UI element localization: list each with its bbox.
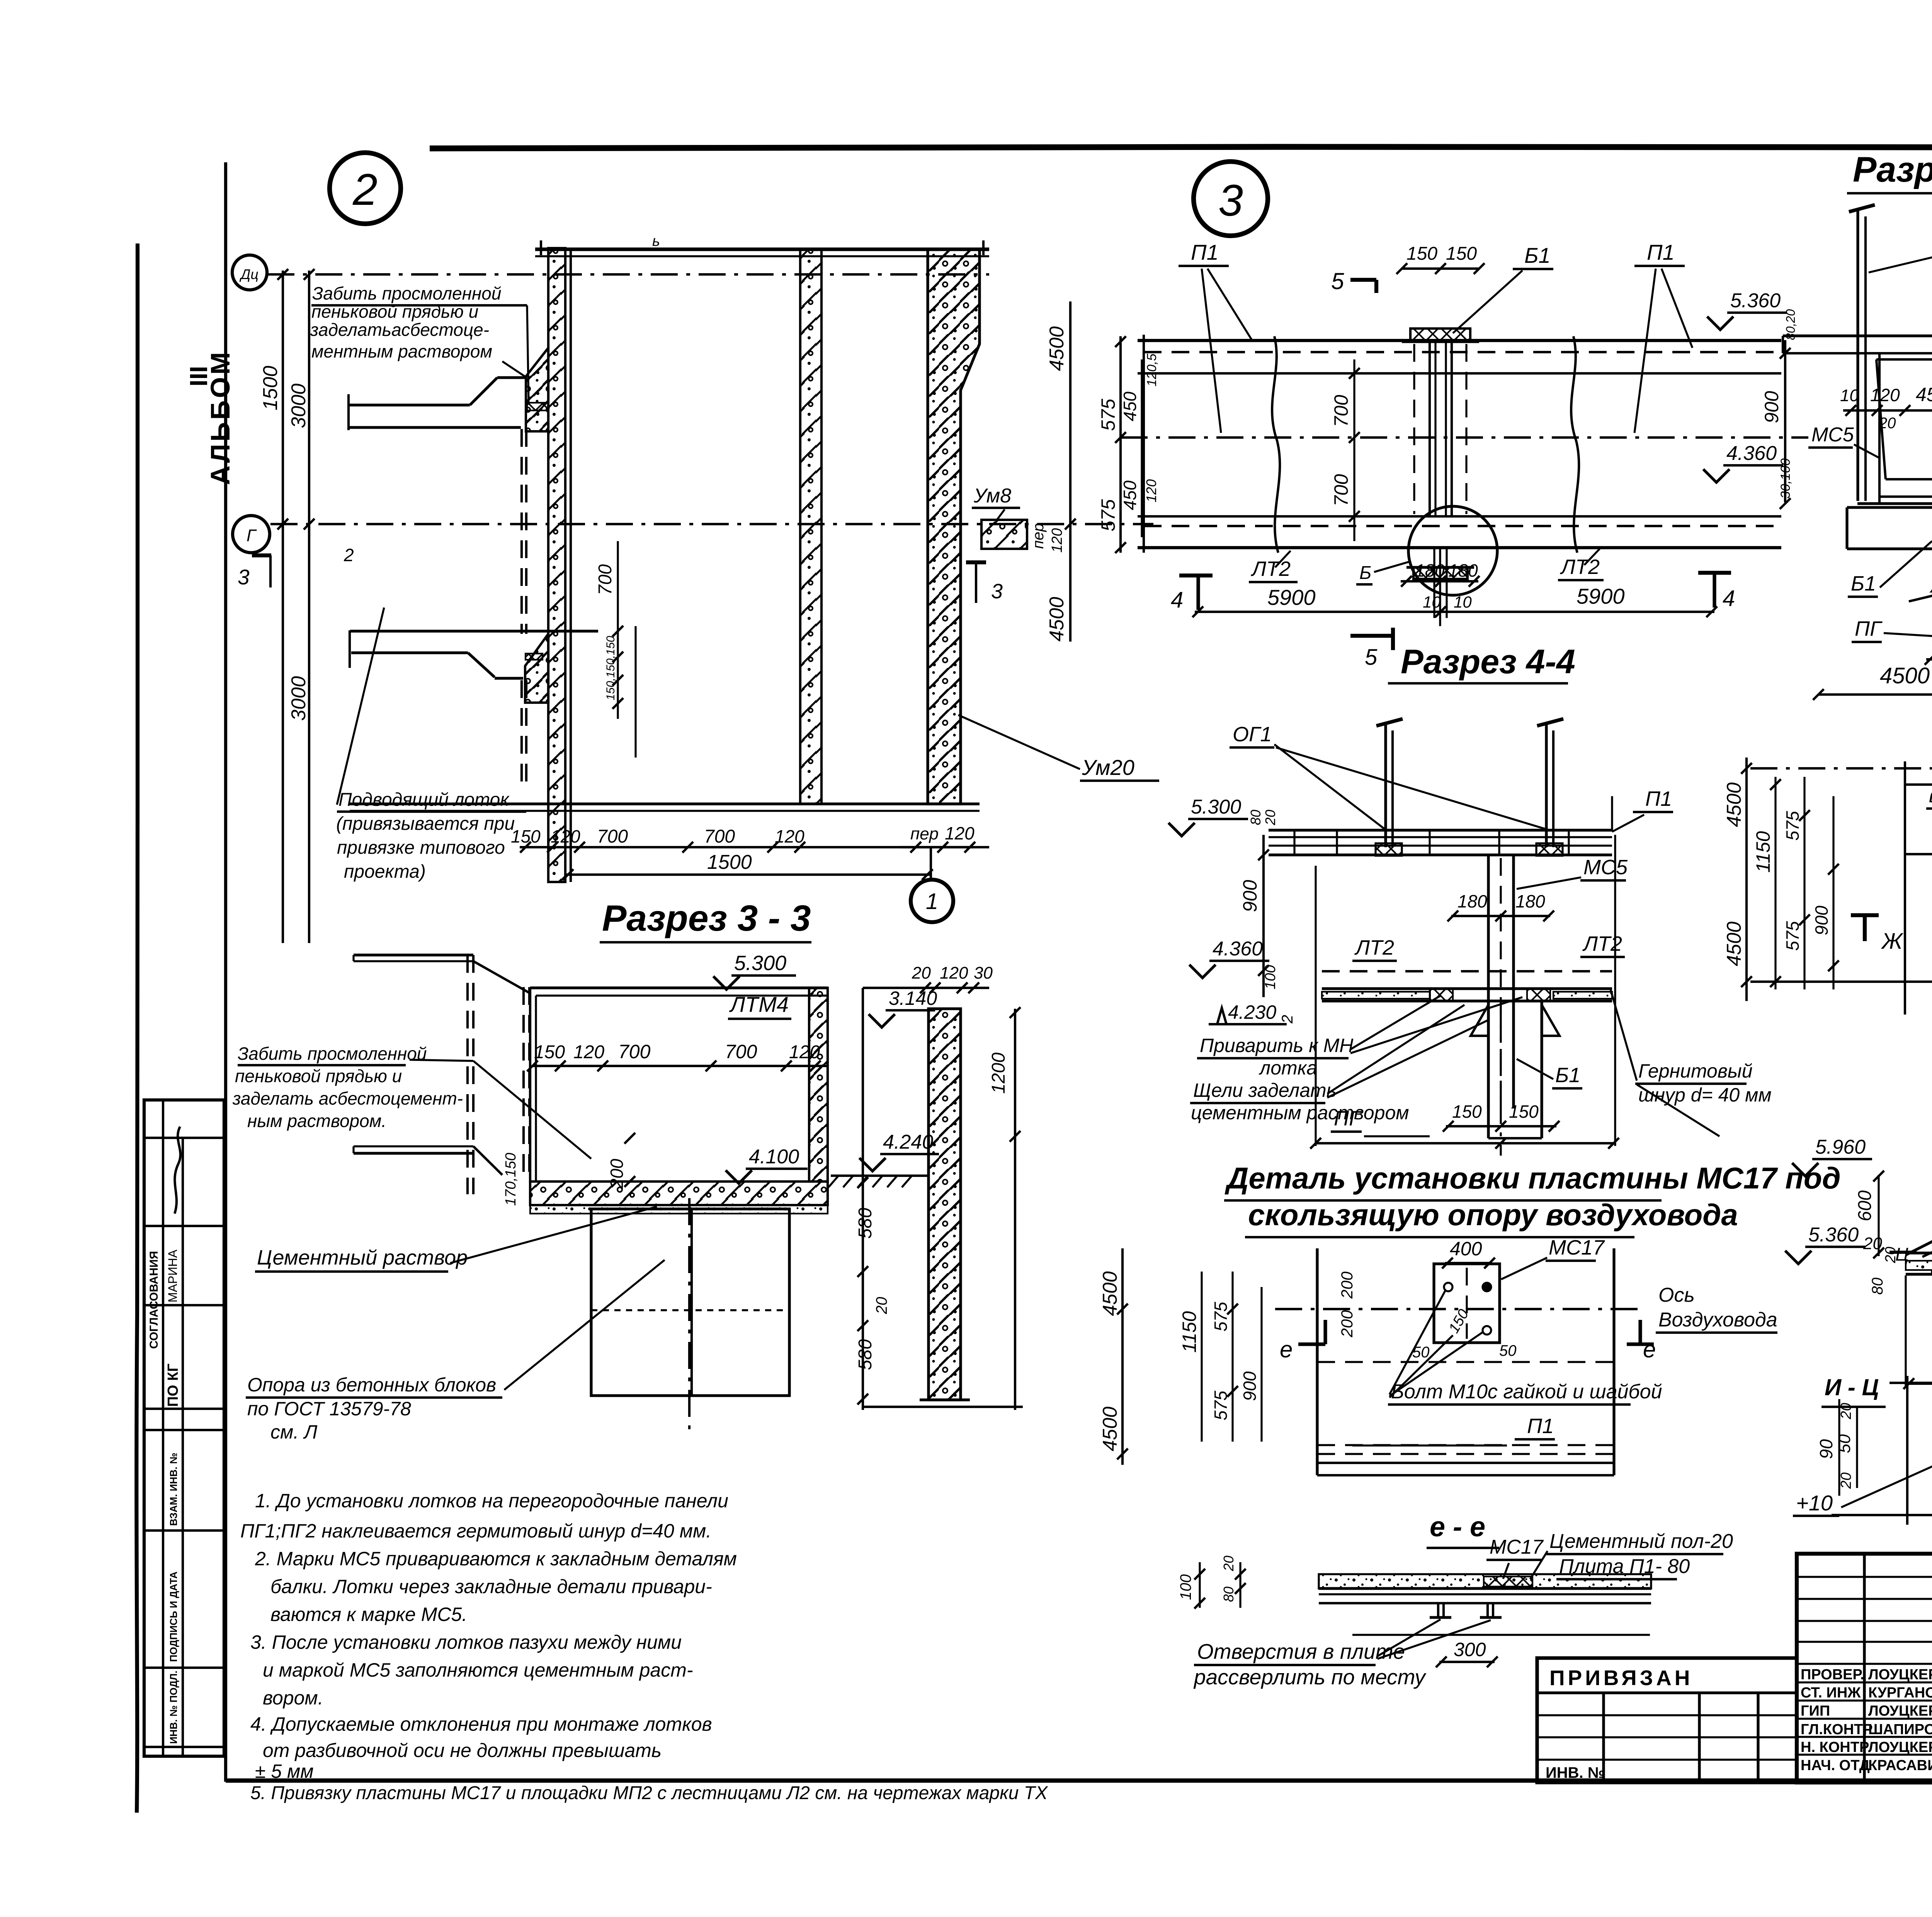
svg-text:4.240: 4.240 [883, 1131, 933, 1153]
leaders shcheli [1327, 1005, 1464, 1094]
svg-text:вором.: вором. [263, 1687, 323, 1709]
titleblock outer [1797, 1554, 1932, 1783]
wall panel 3 hatched thick [928, 249, 980, 804]
svg-text:ПГ: ПГ [1855, 617, 1883, 640]
svg-text:580: 580 [855, 1208, 876, 1239]
post left 5-5 [1856, 209, 1859, 501]
svg-text:3: 3 [991, 580, 1003, 603]
svg-text:20: 20 [873, 1297, 890, 1315]
svg-text:Б1: Б1 [1524, 243, 1551, 267]
svg-text:ВЗАМ. ИНВ. №: ВЗАМ. ИНВ. № [168, 1453, 179, 1526]
svg-text:3. После установки лотков пазу: 3. После установки лотков пазухи между н… [250, 1631, 682, 1653]
svg-text:1500: 1500 [707, 851, 752, 873]
svg-text:Б1: Б1 [1555, 1064, 1580, 1087]
svg-text:700: 700 [1330, 474, 1352, 506]
svg-text:Подводящий лоток: Подводящий лоток [338, 790, 510, 810]
svg-text:Разрез 3 - 3: Разрез 3 - 3 [602, 898, 811, 939]
zhzh bottom dim line [1906, 1382, 1932, 1385]
svg-text:воздуховод: воздуховод [1929, 784, 1932, 807]
center axis line upper cluster [270, 523, 1153, 525]
titleblock small rows upper [1797, 1576, 1932, 1578]
gasket strip lower [526, 654, 543, 660]
svg-text:20: 20 [1262, 810, 1278, 826]
svg-text:120: 120 [775, 826, 804, 846]
um8 embed detail [981, 520, 1027, 549]
svg-text:900: 900 [1239, 880, 1261, 912]
svg-text:4500: 4500 [1723, 921, 1745, 966]
break wavy right [1571, 336, 1579, 553]
svg-text:575: 575 [1782, 811, 1803, 841]
svg-text:ЛОУЦКЕР: ЛОУЦКЕР [1868, 1703, 1932, 1719]
section circle 2 [330, 153, 401, 224]
svg-text:20: 20 [1838, 1473, 1854, 1489]
concrete patch upper joint [526, 348, 548, 431]
svg-text:3000: 3000 [287, 676, 310, 721]
svg-text:5.960: 5.960 [1815, 1136, 1866, 1158]
stamp row lines [144, 1137, 224, 1139]
svg-text:1500: 1500 [259, 366, 282, 410]
svg-text:3.140: 3.140 [889, 987, 937, 1009]
svg-text:П1: П1 [1647, 240, 1675, 264]
svg-text:10: 10 [1840, 386, 1859, 405]
dim 5900 line [1195, 611, 1714, 613]
svg-text:100: 100 [1177, 1574, 1194, 1600]
svg-text:± 5 мм: ± 5 мм [255, 1760, 314, 1782]
svg-text:700: 700 [704, 826, 735, 847]
svg-text:Забить просмоленной: Забить просмоленной [312, 283, 501, 303]
svg-text:Б1: Б1 [1851, 572, 1876, 595]
upper pipe [347, 394, 350, 430]
svg-text:1. До установки лотков на пере: 1. До установки лотков на перегородочные… [255, 1490, 728, 1512]
svg-text:4.360: 4.360 [1213, 938, 1263, 960]
svg-text:50: 50 [1499, 1342, 1517, 1359]
svg-text:ПГ1;ПГ2 наклеивается гермитовы: ПГ1;ПГ2 наклеивается гермитовый шнур d=4… [240, 1520, 711, 1542]
svg-text:150: 150 [1452, 1102, 1482, 1122]
tank bottom slab hatched [530, 1182, 828, 1205]
svg-text:700: 700 [1330, 395, 1352, 427]
svg-text:Воздуховода: Воздуховода [1658, 1309, 1777, 1331]
svg-text:ПО КГ: ПО КГ [165, 1364, 181, 1407]
dim 700 column [1353, 359, 1355, 541]
hanging T center [1487, 855, 1490, 1108]
section circle 3 [1194, 162, 1268, 236]
svg-text:П1: П1 [1527, 1415, 1554, 1438]
svg-text:2: 2 [344, 545, 354, 565]
top slab 5-5 [1783, 334, 1932, 337]
svg-text:120,5: 120,5 [1145, 354, 1159, 386]
svg-text:70: 70 [1930, 635, 1932, 655]
ee slab dotted strip [1319, 1574, 1651, 1588]
svg-text:100: 100 [1262, 965, 1279, 989]
svg-text:Цементный пол-20: Цементный пол-20 [1549, 1530, 1733, 1553]
svg-text:80: 80 [1248, 810, 1264, 825]
tank right wall hatched [809, 988, 828, 1182]
svg-text:Ось: Ось [1658, 1284, 1695, 1306]
posts mid detail [1384, 723, 1387, 847]
stamp outer box [144, 1100, 224, 1756]
top beam line [535, 247, 989, 251]
svg-text:5900: 5900 [1267, 585, 1316, 609]
svg-text:скользящую опору воздуховода: скользящую опору воздуховода [1248, 1198, 1738, 1232]
svg-text:200: 200 [1338, 1271, 1356, 1299]
svg-text:ЛТ2: ЛТ2 [1354, 936, 1394, 959]
svg-text:30: 30 [974, 964, 993, 982]
svg-text:Б: Б [1359, 563, 1371, 583]
svg-text:СТ. ИНЖ: СТ. ИНЖ [1801, 1685, 1861, 1701]
blocks axis vertical [688, 1198, 690, 1430]
left dim stack 4-4 [1119, 336, 1122, 553]
svg-text:МС5: МС5 [1583, 856, 1628, 879]
zhzh base slab [1906, 1251, 1932, 1254]
ground hatch line [831, 1175, 927, 1177]
svg-text:120: 120 [1143, 479, 1159, 502]
svg-text:ЛТ2: ЛТ2 [1560, 555, 1600, 579]
svg-text:Разрез 4-4: Разрез 4-4 [1401, 642, 1575, 681]
svg-text:2: 2 [352, 165, 378, 215]
tsts dims left [1838, 1399, 1840, 1496]
svg-text:150: 150 [511, 826, 541, 846]
svg-text:575: 575 [1782, 921, 1803, 951]
svg-text:пер: пер [1030, 523, 1047, 549]
left pipe lower [354, 953, 473, 956]
svg-text:50: 50 [1835, 1434, 1854, 1453]
svg-text:900: 900 [1811, 906, 1832, 935]
beam B1 dashed edges [1413, 344, 1415, 514]
zhzh left slope [1906, 1173, 1932, 1255]
svg-text:5: 5 [1331, 268, 1344, 294]
svg-text:700: 700 [618, 1041, 651, 1062]
duct band top line [1138, 339, 1781, 342]
svg-text:150,150,150: 150,150,150 [604, 636, 617, 700]
svg-text:20: 20 [1838, 1403, 1854, 1420]
leader lower note [410, 1060, 473, 1061]
wall side lines [1014, 1009, 1016, 1410]
svg-text:4.360: 4.360 [1726, 442, 1777, 465]
svg-text:170,150: 170,150 [503, 1153, 519, 1206]
privyazan grid [1602, 1693, 1605, 1783]
svg-text:575: 575 [1211, 1302, 1231, 1331]
svg-text:5900: 5900 [1577, 584, 1625, 608]
pipe wall dashed lower [466, 955, 469, 1194]
svg-text:КУРГАНОВА: КУРГАНОВА [1868, 1685, 1932, 1701]
svg-text:120: 120 [940, 964, 968, 982]
stamp column dividers [162, 1100, 164, 1756]
section mark 5 lower-left [1350, 634, 1391, 638]
svg-text:5.300: 5.300 [734, 952, 786, 975]
svg-text:МАРИНА: МАРИНА [166, 1250, 180, 1302]
svg-text:ГИП: ГИП [1801, 1703, 1830, 1719]
svg-text:4.230: 4.230 [1228, 1001, 1276, 1023]
svg-text:5.300: 5.300 [1191, 796, 1241, 818]
tank walls lower [530, 986, 828, 989]
svg-text:МС17: МС17 [1549, 1236, 1605, 1259]
bottom dim line [520, 846, 974, 848]
svg-text:е: е [1643, 1336, 1656, 1362]
svg-text:5: 5 [1365, 645, 1378, 670]
svg-text:450: 450 [1120, 480, 1140, 510]
svg-text:ИНВ. № ПОДЛ.: ИНВ. № ПОДЛ. [168, 1671, 179, 1744]
leader podvodyashchiy [337, 608, 384, 805]
svg-text:120: 120 [789, 1042, 820, 1062]
right dim stack 4500 [1069, 301, 1071, 642]
duct band second line [1138, 372, 1781, 375]
svg-text:Приварить к МН: Приварить к МН [1200, 1035, 1354, 1056]
mid dash axis [1322, 970, 1612, 972]
privyazan table [1537, 1658, 1797, 1783]
svg-text:120: 120 [945, 823, 975, 843]
svg-text:Деталь установки пластины МС17: Деталь установки пластины МС17 под [1225, 1161, 1841, 1195]
svg-text:СОГЛАСОВАНИЯ: СОГЛАСОВАНИЯ [148, 1251, 160, 1349]
svg-text:150: 150 [1509, 1102, 1539, 1122]
svg-text:Отверстия в плите: Отверстия в плите [1197, 1639, 1405, 1663]
svg-text:ным раствором.: ным раствором. [247, 1111, 386, 1131]
svg-text:150: 150 [1446, 243, 1477, 264]
titleblock name grid columns [1863, 1554, 1866, 1783]
svg-text:ЛОУЦКЕР: ЛОУЦКЕР [1868, 1739, 1932, 1755]
upper pipe dashed end [520, 429, 523, 634]
svg-text:ЛОУЦКЕР: ЛОУЦКЕР [1868, 1667, 1932, 1683]
svg-text:200: 200 [1338, 1310, 1356, 1338]
plan bottom line [1766, 981, 1932, 983]
svg-text:заделатьасбестоце-: заделатьасбестоце- [310, 320, 489, 340]
svg-text:2: 2 [1279, 1015, 1296, 1024]
duct mid dashdot [1905, 853, 1932, 855]
svg-text:575: 575 [1097, 499, 1119, 531]
svg-text:и маркой МС5 заполняются цемен: и маркой МС5 заполняются цементным раст- [263, 1659, 693, 1681]
svg-text:ментным раствором: ментным раствором [311, 341, 492, 361]
svg-text:120: 120 [1870, 385, 1900, 405]
svg-text:Забить просмоленной: Забить просмоленной [238, 1044, 427, 1064]
svg-text:е: е [1280, 1336, 1293, 1362]
leaders otverstiya ee [1378, 1619, 1440, 1656]
svg-text:400: 400 [1450, 1238, 1482, 1260]
section mark Zh left [1851, 913, 1879, 917]
axis circle G [233, 516, 270, 553]
svg-text:4500: 4500 [1099, 1271, 1121, 1316]
svg-text:привязке типового: привязке типового [337, 838, 505, 858]
svg-text:рассверлить по месту: рассверлить по месту [1193, 1665, 1427, 1689]
svg-text:Н. КОНТР: Н. КОНТР [1801, 1739, 1869, 1755]
svg-text:И - Ц: И - Ц [1825, 1374, 1879, 1400]
svg-text:80: 80 [1221, 1587, 1236, 1602]
svg-text:4. Допускаемые отклонения при: 4. Допускаемые отклонения при монтаже ло… [250, 1713, 712, 1735]
svg-text:180: 180 [1448, 560, 1478, 581]
beam B1 web verticals [1429, 342, 1431, 516]
dim 900 rotated 5-5 [1784, 340, 1786, 502]
axis line Dts [267, 273, 989, 276]
svg-text:КРАСАВИН: КРАСАВИН [1868, 1757, 1932, 1774]
svg-text:20: 20 [1878, 415, 1896, 432]
wall lower right hatched [929, 1009, 961, 1400]
blocks under tank [591, 1209, 789, 1396]
svg-text:МС5: МС5 [1811, 424, 1854, 446]
svg-text:ЛТ2: ЛТ2 [1251, 557, 1291, 581]
svg-text:Дц: Дц [239, 266, 259, 282]
axis circle Dts [232, 255, 267, 290]
mc17 bolts [1444, 1283, 1452, 1291]
svg-text:4: 4 [1171, 587, 1183, 613]
svg-text:Ж: Ж [1881, 929, 1904, 954]
svg-text:10: 10 [1454, 593, 1472, 611]
svg-text:Ум20: Ум20 [1082, 755, 1134, 780]
concrete patch lower joint [525, 634, 548, 703]
mc17 plan bottom band [1317, 1444, 1614, 1446]
U channel outer [1876, 358, 1932, 361]
dim 1500 line [564, 873, 931, 876]
pipe slope lower [473, 961, 530, 993]
beam bottom pad crosshatched [1413, 567, 1468, 579]
svg-text:450: 450 [1916, 384, 1932, 405]
post base pads [1376, 843, 1402, 856]
svg-text:180: 180 [1458, 891, 1487, 911]
svg-text:е - е: е - е [1430, 1512, 1485, 1542]
plan left edge vertical [1904, 761, 1906, 1015]
svg-text:МС17: МС17 [1490, 1536, 1544, 1558]
svg-text:заделать асбестоцемент-: заделать асбестоцемент- [232, 1088, 463, 1108]
leaders bolt plan [1389, 1291, 1445, 1394]
section mark 4 left [1196, 575, 1200, 610]
svg-text:120: 120 [573, 1042, 604, 1062]
beam bottom detail circle [1408, 506, 1497, 595]
svg-text:ПРИВЯЗАН: ПРИВЯЗАН [1549, 1666, 1693, 1690]
break wavy left [1272, 336, 1280, 553]
dim vertical lines left [282, 271, 284, 943]
svg-text:200: 200 [607, 1159, 627, 1189]
svg-text:3: 3 [238, 565, 250, 589]
leader from note to wall [502, 361, 526, 377]
bottom lines upper cluster [350, 802, 980, 805]
svg-text:450: 450 [1120, 392, 1140, 421]
svg-text:1150: 1150 [1179, 1311, 1200, 1353]
tsts crosshair [1889, 1382, 1932, 1384]
section mark 5 top [1350, 278, 1376, 282]
svg-text:1200: 1200 [988, 1052, 1009, 1094]
svg-text:4500: 4500 [1723, 782, 1745, 827]
ee slab lines [1319, 1587, 1651, 1590]
svg-text:2. Марки МС5 привариваются к з: 2. Марки МС5 привариваются к закладным д… [255, 1548, 737, 1570]
svg-text:150: 150 [534, 1042, 565, 1062]
svg-text:4500: 4500 [1046, 326, 1068, 371]
svg-text:ь: ь [652, 233, 660, 249]
stamp signature squiggle [175, 1127, 180, 1214]
svg-text:4: 4 [1723, 586, 1735, 611]
ee legs [1437, 1603, 1439, 1617]
svg-text:ПОДПИСЬ И ДАТА: ПОДПИСЬ И ДАТА [168, 1571, 179, 1662]
lower pipe dashed below [520, 680, 523, 788]
svg-text:ваются к марке МС5.: ваются к марке МС5. [270, 1604, 467, 1625]
svg-text:20: 20 [1883, 1247, 1899, 1263]
axis circle 1 [930, 847, 932, 880]
svg-text:5.360: 5.360 [1730, 289, 1781, 312]
svg-text:3: 3 [1218, 176, 1243, 225]
svg-text:90: 90 [1816, 1439, 1836, 1459]
svg-text:4.100: 4.100 [749, 1146, 799, 1168]
slab mid detail [1269, 829, 1612, 831]
svg-text:ШАПИРО: ШАПИРО [1868, 1721, 1932, 1738]
svg-text:ПРОВЕР.: ПРОВЕР. [1801, 1667, 1864, 1683]
svg-text:3000: 3000 [287, 383, 310, 428]
section mark 3 below G [252, 553, 271, 557]
svg-text:900: 900 [1761, 391, 1782, 423]
svg-text:Г: Г [247, 526, 257, 545]
duct band lower lines [1138, 515, 1781, 518]
ee bottom line [1352, 1634, 1650, 1636]
duct band center axis [1121, 436, 1808, 439]
svg-text:ПГ: ПГ [1334, 1107, 1362, 1130]
section mark 4 right [1713, 573, 1716, 608]
svg-text:120: 120 [1049, 528, 1065, 553]
beam stub below mid [1487, 1001, 1490, 1138]
svg-text:от разбивочной оси не должны п: от разбивочной оси не должны превышать [263, 1740, 662, 1761]
leaders privarit [1350, 995, 1441, 1049]
svg-text:лотка: лотка [1259, 1057, 1317, 1079]
svg-text:300: 300 [1454, 1639, 1486, 1660]
duct band left closures [1143, 335, 1145, 553]
svg-text:ОГ1: ОГ1 [1233, 723, 1272, 746]
svg-text:1: 1 [926, 889, 938, 914]
svg-text:575: 575 [1097, 398, 1119, 431]
frame top border [430, 147, 1932, 148]
ee left dims [1199, 1562, 1201, 1608]
lower pipe [349, 630, 351, 668]
svg-text:600: 600 [1855, 1190, 1875, 1221]
svg-text:Цементный раствор: Цементный раствор [257, 1246, 468, 1269]
beam B1 top plate crosshatched [1410, 329, 1470, 342]
svg-text:III: III [185, 366, 213, 386]
svg-text:НАЧ. ОТД: НАЧ. ОТД [1801, 1757, 1870, 1774]
svg-text:Гернитовый: Гернитовый [1638, 1060, 1753, 1082]
svg-text:20: 20 [1221, 1556, 1236, 1571]
wall panel 2 hatched [800, 249, 821, 804]
svg-text:шнур d= 40 мм: шнур d= 40 мм [1638, 1084, 1772, 1106]
frame left border [224, 162, 227, 1782]
dim column right of wall1 [617, 541, 619, 719]
duct long lines plan [1750, 767, 1932, 770]
svg-text:1150: 1150 [1752, 831, 1774, 873]
svg-text:4500: 4500 [1046, 597, 1068, 642]
frame bottom border [226, 1778, 1932, 1783]
foundation beam 5-5 [1847, 506, 1932, 509]
svg-text:180: 180 [1415, 560, 1445, 581]
sheet rough left edge [136, 243, 138, 1813]
svg-text:проекта): проекта) [344, 861, 426, 882]
svg-text:5. Привязку пластины МС17 и пл: 5. Привязку пластины МС17 и площадки МП2… [250, 1783, 1048, 1803]
svg-text:4500: 4500 [1099, 1406, 1121, 1451]
svg-text:см. Л: см. Л [270, 1421, 318, 1443]
svg-text:5.360: 5.360 [1808, 1224, 1859, 1246]
svg-text:по ГОСТ 13579-78: по ГОСТ 13579-78 [247, 1398, 411, 1420]
titleblock name rows lower [1797, 1681, 1932, 1683]
mc17 plan left dims [1121, 1248, 1124, 1465]
U channel walls [1878, 353, 1881, 502]
svg-text:пер: пер [910, 824, 939, 843]
svg-text:80,20: 80,20 [1784, 309, 1798, 340]
mc17 plate [1434, 1264, 1500, 1343]
svg-text:900: 900 [1240, 1371, 1260, 1401]
duct band dashed line [1144, 351, 1776, 353]
svg-text:80: 80 [1869, 1278, 1886, 1295]
svg-text:4500: 4500 [1880, 663, 1930, 688]
svg-text:700: 700 [595, 564, 616, 595]
svg-text:700: 700 [597, 826, 628, 847]
svg-text:150: 150 [1406, 243, 1437, 264]
dim 900 mid rotated [1262, 835, 1265, 997]
bottom dim line lower cluster [863, 1406, 1023, 1408]
svg-text:Ум8: Ум8 [973, 485, 1011, 507]
svg-text:П1: П1 [1191, 240, 1219, 264]
svg-text:П1: П1 [1645, 787, 1672, 810]
gasket strip upper [527, 403, 548, 410]
